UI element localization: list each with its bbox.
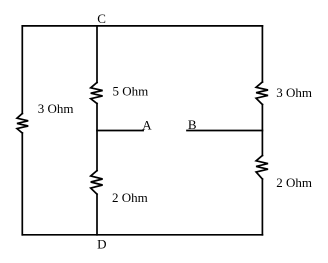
wire node B stub: [187, 130, 262, 132]
resistor 5 Ohm (middle branch upper): [91, 83, 103, 104]
wire middle branch lower lead: [96, 194, 98, 235]
svg-text:D: D: [97, 236, 106, 251]
wire right branch upper lead: [261, 26, 263, 82]
wire middle branch mid lead through node A junction: [96, 104, 98, 171]
wire middle branch upper lead: [96, 26, 98, 83]
resistor 2 Ohm (right branch lower): [256, 156, 268, 180]
resistor 3 Ohm (right branch upper): [256, 82, 268, 105]
wire top (C rail): [22, 25, 262, 27]
wire left branch upper lead: [21, 26, 23, 114]
wire right branch mid lead through node B junction: [261, 105, 263, 156]
wire right branch lower lead: [261, 179, 263, 235]
svg-text:C: C: [97, 11, 106, 26]
svg-text:5 Ohm: 5 Ohm: [113, 84, 149, 99]
svg-text:3 Ohm: 3 Ohm: [38, 101, 74, 116]
svg-text:B: B: [188, 117, 197, 132]
svg-text:2 Ohm: 2 Ohm: [112, 190, 148, 205]
wire left branch lower lead: [21, 133, 23, 235]
wire node A stub: [97, 130, 143, 132]
resistor 2 Ohm (middle branch lower): [91, 171, 103, 195]
svg-text:2 Ohm: 2 Ohm: [276, 175, 312, 190]
svg-text:3 Ohm: 3 Ohm: [276, 85, 312, 100]
wire bottom (D rail): [22, 234, 262, 236]
resistor 3 Ohm (left branch): [17, 114, 28, 134]
svg-text:A: A: [142, 117, 152, 132]
